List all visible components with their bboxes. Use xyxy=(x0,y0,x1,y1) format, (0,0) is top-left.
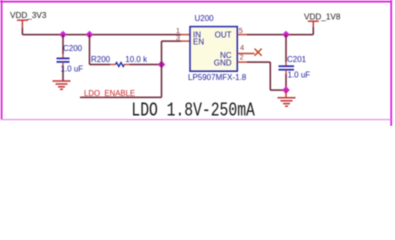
svg-text:5: 5 xyxy=(239,26,243,35)
svg-text:10.0 k: 10.0 k xyxy=(125,55,148,64)
capacitor C201 xyxy=(279,66,295,70)
resistor R200 pin right xyxy=(124,64,129,66)
wire top rail to pin 1 xyxy=(22,34,181,36)
resistor R200 pin left xyxy=(110,64,116,66)
svg-text:C201: C201 xyxy=(287,55,307,64)
svg-text:U200: U200 xyxy=(195,14,215,23)
op-amp U200 body xyxy=(190,27,237,72)
wire OUT to VDD_1V8 xyxy=(247,34,313,36)
pin 3 stub xyxy=(181,40,190,42)
svg-text:GND: GND xyxy=(214,58,232,67)
wire ground stem xyxy=(285,90,287,98)
wire VDD_1V8 stem xyxy=(312,27,314,35)
border frame left xyxy=(1,0,3,120)
svg-text:4: 4 xyxy=(240,43,244,52)
ground symbol below C200 xyxy=(53,81,71,89)
svg-text:LDO_ENABLE: LDO_ENABLE xyxy=(84,89,135,98)
power symbol VDD_1V8 xyxy=(308,21,319,27)
junction node EN/R200 xyxy=(158,61,166,69)
svg-text:1.0 uF: 1.0 uF xyxy=(288,71,311,80)
wire R200 left xyxy=(90,64,111,66)
wire R200 right to junction xyxy=(130,64,162,66)
svg-text:OUT: OUT xyxy=(215,30,232,39)
border frame bottom xyxy=(1,119,391,121)
wire EN horizontal xyxy=(162,40,182,42)
junction node GND/C201 xyxy=(282,86,290,94)
wire C200 to ground xyxy=(62,66,64,81)
wire C200 top xyxy=(62,35,64,54)
wire R200 stem xyxy=(89,35,91,65)
wire C201 top xyxy=(285,35,287,62)
junction node OUT/C201 xyxy=(282,31,290,39)
power symbol VDD_3V3 xyxy=(17,20,28,28)
junction node rail/C200 xyxy=(59,31,67,39)
border frame top xyxy=(0,1,392,3)
wire GND vertical xyxy=(269,62,271,90)
svg-text:C200: C200 xyxy=(63,44,83,53)
capacitor C200 xyxy=(57,58,70,62)
wire GND to C201 xyxy=(270,89,286,91)
svg-text:LDO 1.8V-250mA: LDO 1.8V-250mA xyxy=(131,101,255,122)
capacitor C201 pin top xyxy=(285,62,287,66)
wire LDO_ENABLE xyxy=(80,96,162,98)
capacitor C200 pin bottom xyxy=(62,62,64,66)
svg-text:R200: R200 xyxy=(91,55,111,64)
wire GND horizontal xyxy=(247,61,270,63)
wire EN vertical xyxy=(161,41,163,97)
wire VDD_3V3 stem xyxy=(21,28,23,35)
no-connect X xyxy=(255,49,262,56)
resistor R200 xyxy=(116,63,125,67)
svg-text:EN: EN xyxy=(193,38,204,47)
pin 5 stub xyxy=(237,34,247,36)
pin 4 stub xyxy=(237,53,254,55)
capacitor C201 pin bottom xyxy=(285,70,287,74)
junction node rail/R200 xyxy=(86,31,94,39)
svg-text:LP5907MFX-1.8: LP5907MFX-1.8 xyxy=(188,73,247,82)
svg-text:1.0 uF: 1.0 uF xyxy=(61,65,84,74)
svg-text:VDD_3V3: VDD_3V3 xyxy=(10,11,47,20)
svg-text:VDD_1V8: VDD_1V8 xyxy=(304,12,341,21)
wire C201 bottom xyxy=(285,74,287,90)
svg-text:3: 3 xyxy=(176,33,180,42)
pin 1 stub xyxy=(181,34,190,36)
ground symbol below C201 xyxy=(278,98,296,106)
capacitor C200 pin top xyxy=(62,54,64,58)
pin 2 stub xyxy=(237,61,247,63)
border frame right xyxy=(390,0,392,126)
